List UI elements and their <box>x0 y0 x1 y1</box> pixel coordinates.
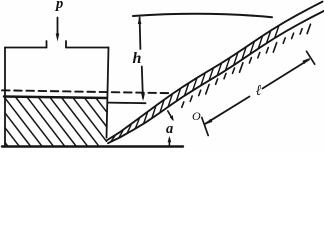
tank bottom baseline <box>2 145 183 147</box>
arrow p shaft <box>57 18 59 38</box>
tank neck right stub <box>65 41 67 48</box>
tank right wall <box>107 48 109 138</box>
liquid hatching in tank <box>5 98 107 147</box>
scale tick marks <box>182 24 311 107</box>
h arrowhead up <box>138 16 142 24</box>
dimension h line lower <box>142 67 143 99</box>
l lower end bar <box>202 118 208 136</box>
tank top left segment <box>5 47 47 49</box>
dimension a upper leader <box>168 111 173 119</box>
label O origin <box>192 109 201 124</box>
l upper end bar <box>307 51 315 64</box>
l lower arrowhead <box>204 119 212 125</box>
l upper arrowhead <box>302 58 310 64</box>
inclined tube upper wall <box>107 2 323 141</box>
liquid surface line in tank <box>4 97 107 99</box>
dashed zero-level line <box>2 90 172 93</box>
a lower arrowhead <box>168 136 172 142</box>
label h <box>133 50 142 68</box>
inclined tube lower wall <box>108 11 324 143</box>
dimension l line lower segment <box>205 97 249 124</box>
dimension a lower line <box>168 139 170 147</box>
label l <box>256 83 261 100</box>
tank left wall <box>4 48 6 147</box>
label a <box>166 121 173 138</box>
liquid column rungs in tube <box>111 26 279 141</box>
h arrowhead down <box>141 94 145 102</box>
a upper arrowhead <box>170 115 174 121</box>
dimension l line upper segment <box>263 60 310 89</box>
tank neck left stub <box>46 41 48 48</box>
dimension h line upper <box>139 18 142 50</box>
top meniscus level line <box>133 14 272 17</box>
label p <box>56 0 63 13</box>
arrow p head <box>56 34 60 42</box>
surface extension line <box>109 102 146 105</box>
tank top right segment <box>66 47 109 49</box>
